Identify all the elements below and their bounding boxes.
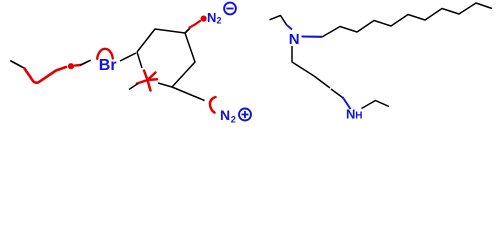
svg-text:2: 2	[217, 16, 222, 26]
svg-text:N: N	[346, 107, 355, 122]
middle molecule: red ring-O asterisk	[137, 71, 157, 91]
middle molecule: red arc over Br label	[97, 49, 113, 59]
left fragment: red bond after O	[75, 64, 81, 67]
svg-text:N: N	[220, 107, 230, 123]
middle molecule: top red O blob	[201, 16, 207, 22]
middle molecule: wedge to top O (black half)	[185, 28, 190, 33]
svg-text:N: N	[207, 10, 216, 25]
middle molecule: bottom chain black bond	[172, 87, 205, 101]
right molecule: black ethyl tail after lower NH	[362, 101, 390, 109]
right molecule: upper-left branch blue half bond	[287, 25, 293, 30]
middle molecule: top circled minus charge	[224, 3, 236, 15]
right molecule: blue half of bond into lower N	[343, 97, 351, 109]
middle molecule: bottom circled plus charge	[239, 109, 251, 121]
left fragment: red zigzag O-chain	[25, 67, 67, 83]
right molecule: upper-left branch black bonds	[270, 16, 287, 25]
right molecule: black half of bond into lower N	[331, 89, 343, 98]
svg-text:2: 2	[231, 114, 236, 124]
svg-text:Br: Br	[99, 57, 117, 74]
right molecule: blue half bond from N to chain	[302, 35, 323, 37]
middle molecule: bottom red O arc	[210, 97, 216, 113]
svg-text:N: N	[289, 31, 300, 48]
middle molecule: black stub left of ring O	[129, 84, 138, 90]
left fragment: black stub	[11, 61, 24, 68]
left fragment: red O atom dot	[68, 63, 74, 69]
middle molecule: bond from label to ring	[120, 53, 136, 61]
svg-text:H: H	[355, 111, 362, 122]
right molecule: chain from N down to lower N (black)	[292, 46, 330, 88]
middle molecule: top red hooked bond	[190, 21, 201, 28]
left fragment: black tail bond	[81, 61, 90, 65]
middle molecule: ring bonds	[137, 29, 195, 87]
right molecule: top zigzag chain	[322, 3, 492, 37]
